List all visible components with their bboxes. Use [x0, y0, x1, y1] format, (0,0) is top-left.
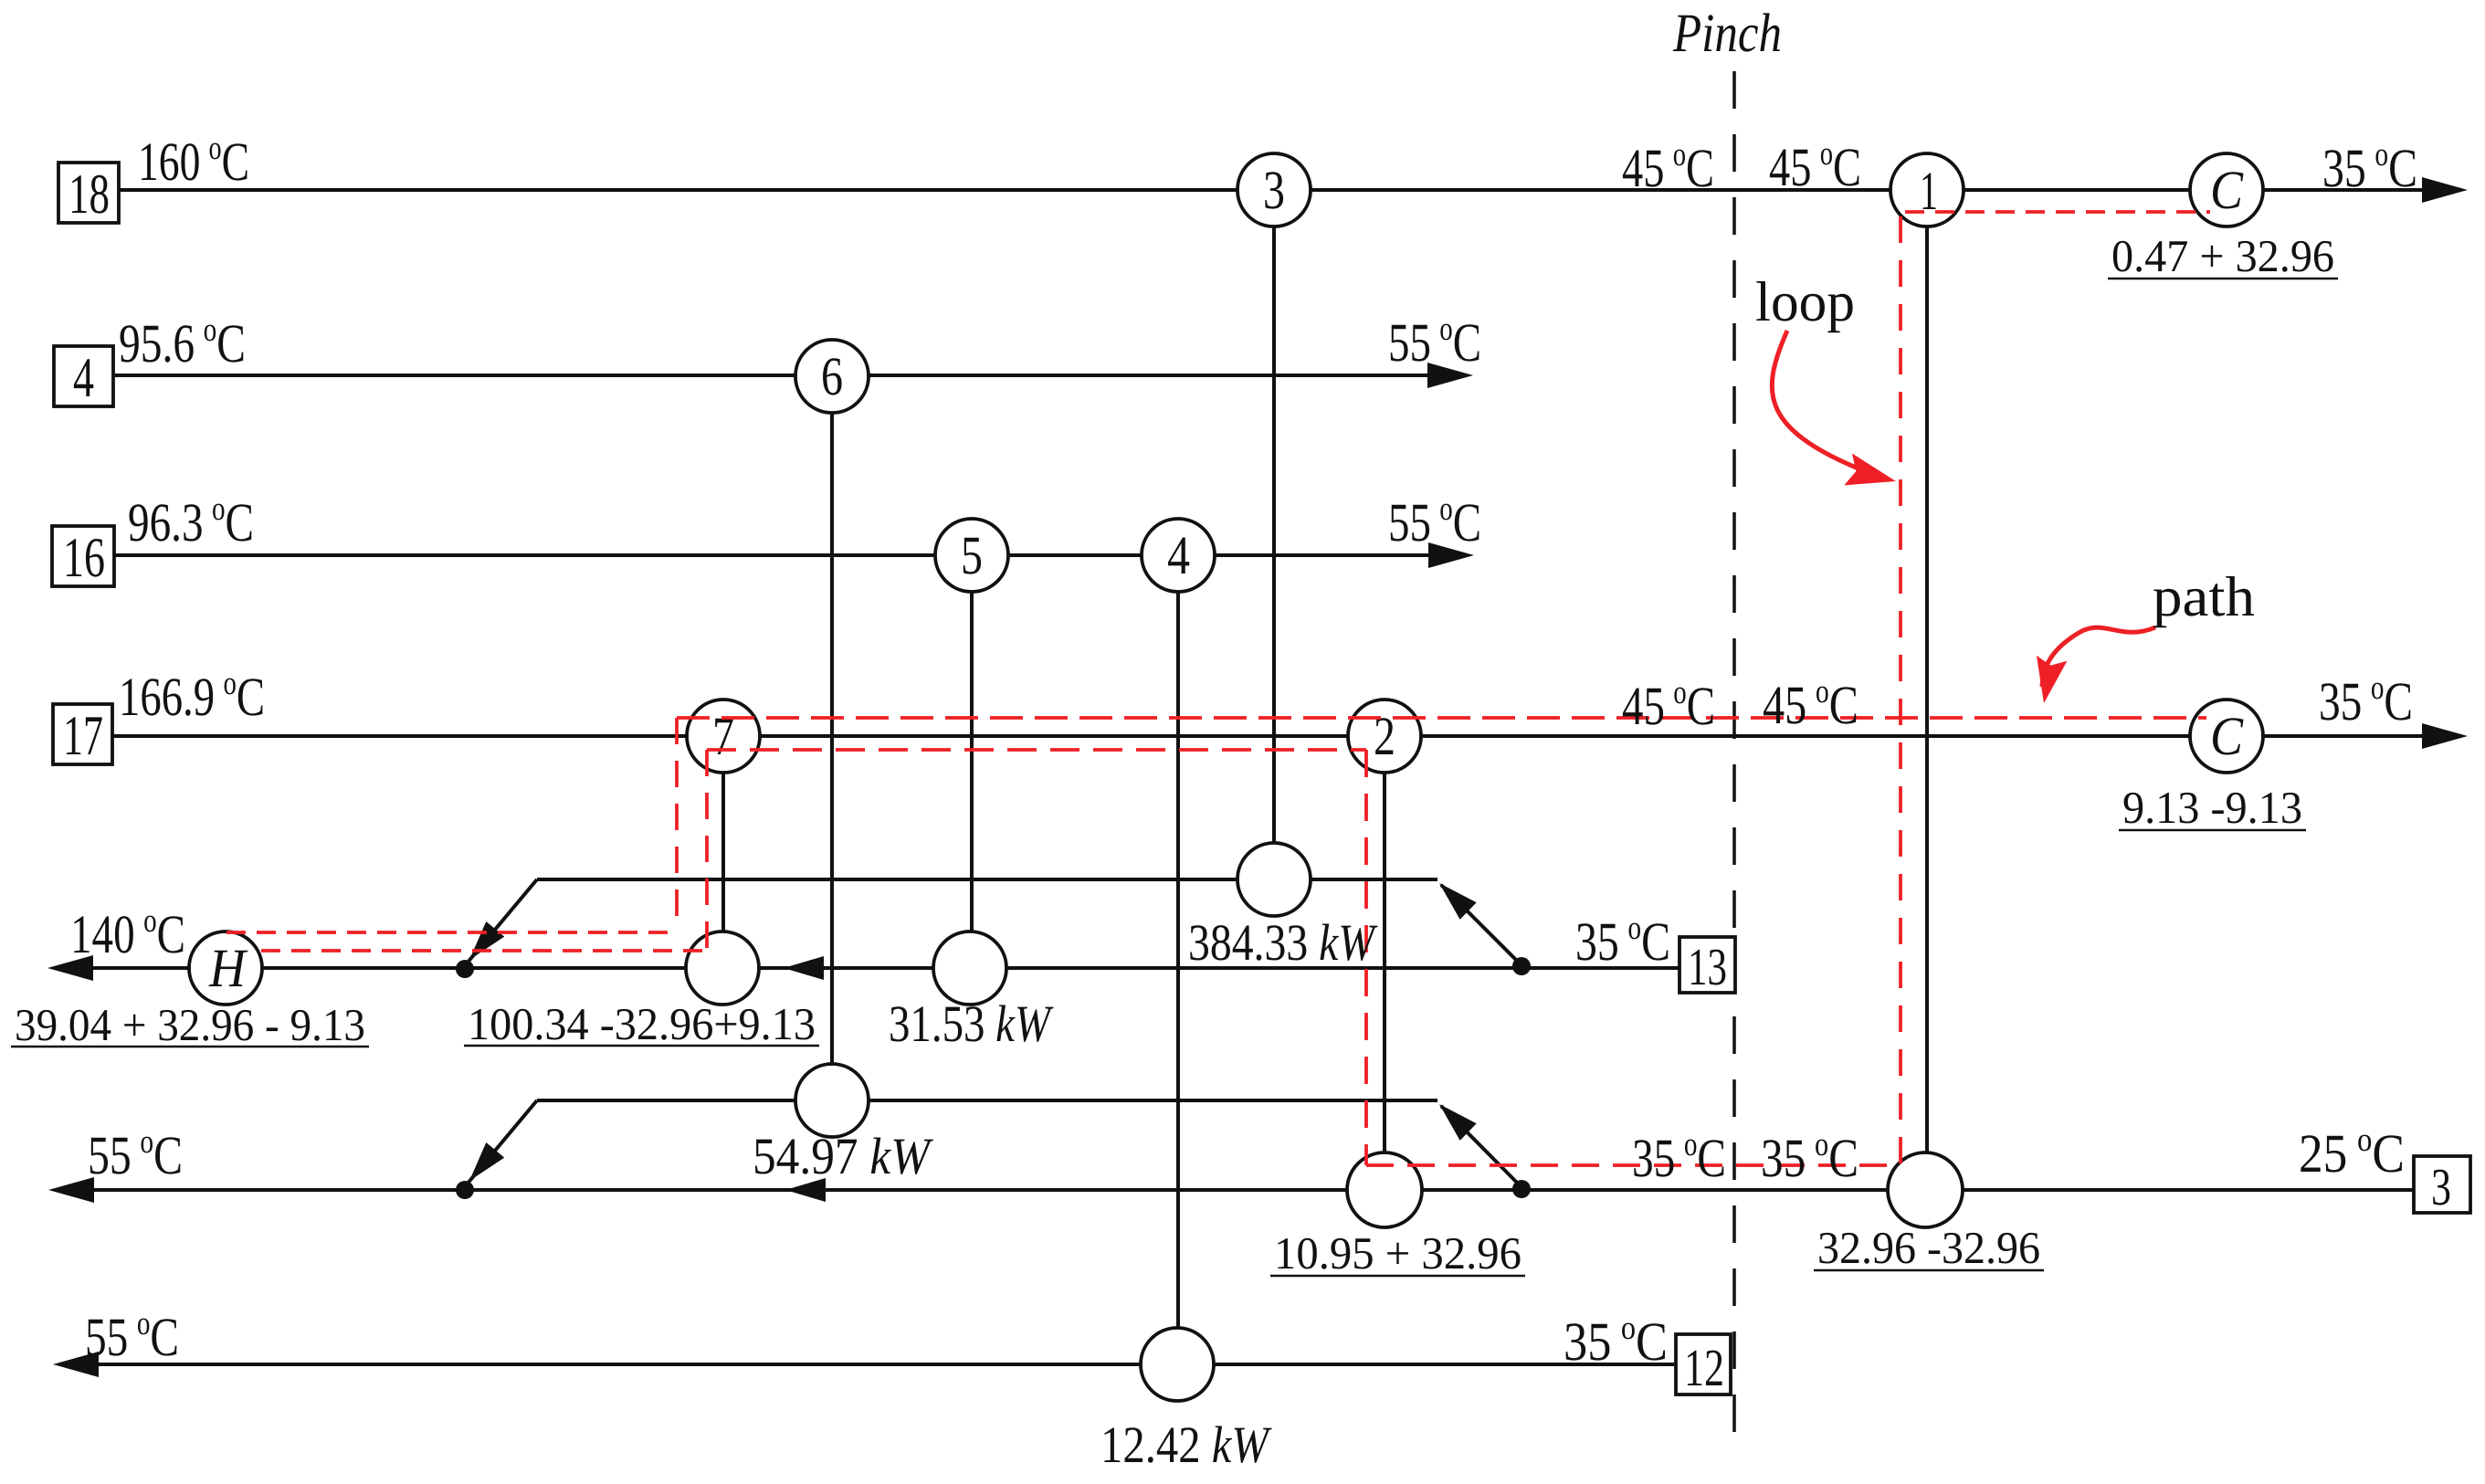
heat exchanger 6 shell 54.97 kW	[795, 1064, 869, 1137]
wire red path vertical at exchanger 2	[1364, 750, 1368, 1165]
cooler C on stream 18	[2190, 153, 2263, 226]
svg-text:3: 3	[2431, 1157, 2451, 1216]
heat exchanger 4 on stream 16	[1142, 519, 1215, 592]
svg-text:45 oC: 45 oC	[1622, 674, 1715, 736]
svg-text:4: 4	[1167, 525, 1190, 585]
heat exchanger 1 shell on stream 3	[1888, 1152, 1963, 1227]
heater H on stream 13	[189, 931, 262, 1005]
svg-text:95.6 oC: 95.6 oC	[119, 311, 246, 374]
wire red path horizontal below stream 17	[707, 748, 1366, 752]
arrow stream 16 outlet 55C	[1428, 542, 1474, 568]
svg-text:3: 3	[1263, 160, 1285, 220]
svg-text:4: 4	[73, 347, 94, 409]
wire stream 3 branch diagonal left	[467, 1100, 537, 1184]
svg-text:160 oC: 160 oC	[138, 130, 249, 192]
heat exchanger 6 on stream 4	[795, 340, 869, 413]
arrow red path annotation	[2042, 627, 2155, 687]
svg-text:100.34 -32.96+9.13: 100.34 -32.96+9.13	[468, 998, 816, 1049]
arrow stream 12 outlet 55C	[53, 1352, 99, 1377]
svg-text:9.13 -9.13: 9.13 -9.13	[2122, 782, 2302, 833]
wire match 1 vertical	[1925, 190, 1929, 1190]
svg-text:54.97 kW: 54.97 kW	[753, 1128, 933, 1185]
wire stream 16 hot line	[114, 553, 1431, 557]
wire red path lower horizontal to heater H	[261, 949, 707, 952]
heat exchanger 3 on stream 18	[1237, 153, 1311, 226]
node split junction stream 3 right	[1512, 1180, 1531, 1198]
wire stream 3 branch line	[537, 1099, 1437, 1102]
svg-text:7: 7	[712, 706, 734, 766]
heat exchanger 7 on stream 17	[687, 700, 760, 773]
arrow stream 13 outlet 140C	[47, 955, 93, 981]
svg-text:16: 16	[63, 527, 105, 589]
wire red loop top horizontal under cooler C stream 18	[1905, 210, 2210, 214]
svg-text:384.33 kW: 384.33 kW	[1188, 914, 1378, 972]
heat exchanger 2 shell on stream 3	[1347, 1152, 1422, 1227]
svg-text:45 oC: 45 oC	[1763, 673, 1858, 735]
wire match 7 vertical	[721, 736, 725, 968]
svg-text:35 oC: 35 oC	[2322, 136, 2417, 198]
svg-text:6: 6	[821, 346, 843, 406]
svg-text:55 oC: 55 oC	[1388, 490, 1481, 553]
wire red loop left vertical	[1899, 216, 1902, 1165]
svg-text:loop: loop	[1755, 271, 1855, 333]
svg-text:55 oC: 55 oC	[88, 1123, 183, 1185]
wire red path inner vertical at exchanger 7	[705, 750, 709, 951]
node merge junction stream 13 left	[456, 960, 474, 978]
svg-text:2: 2	[1374, 706, 1395, 766]
node stream box 3	[2414, 1156, 2470, 1213]
node stream box 18	[58, 163, 119, 223]
heat exchanger 5 on stream 16	[935, 519, 1008, 592]
svg-text:45 oC: 45 oC	[1622, 136, 1714, 198]
wire stream 3 cold line	[90, 1188, 2414, 1192]
pinch dashed line	[1732, 71, 1736, 1445]
svg-text:35 oC: 35 oC	[1575, 910, 1670, 972]
svg-text:55 oC: 55 oC	[85, 1305, 179, 1367]
wire stream 13 branch diagonal right	[1441, 885, 1522, 965]
svg-text:166.9 oC: 166.9 oC	[119, 665, 265, 727]
svg-text:31.53 kW: 31.53 kW	[889, 995, 1054, 1053]
svg-text:C: C	[2210, 706, 2244, 766]
svg-text:17: 17	[63, 705, 103, 767]
svg-text:140 oC: 140 oC	[70, 902, 185, 964]
node merge junction stream 3 left	[456, 1181, 474, 1199]
wire match 5 vertical	[970, 555, 974, 968]
svg-text:32.96 -32.96: 32.96 -32.96	[1817, 1222, 2040, 1273]
wire red path outer vertical at exchanger 7	[675, 718, 679, 932]
heat exchanger 3 shell 384.33 kW	[1237, 843, 1311, 916]
wire match 2 vertical	[1383, 736, 1386, 1190]
wire red path upper horizontal to heater H	[226, 931, 677, 934]
arrow stream 3 split to branch	[1431, 1096, 1477, 1141]
arrow stream 13 split to branch	[1431, 875, 1477, 920]
svg-text:Pinch: Pinch	[1672, 3, 1782, 63]
svg-text:path: path	[2153, 566, 2255, 628]
arrow stream 13 branch merge	[460, 921, 504, 967]
node stream box 4	[54, 346, 113, 406]
svg-text:39.04 + 32.96 - 9.13: 39.04 + 32.96 - 9.13	[15, 999, 365, 1050]
svg-text:18: 18	[68, 163, 110, 226]
wire stream 18 hot line	[119, 188, 2425, 192]
svg-text:45 oC: 45 oC	[1769, 135, 1861, 197]
node stream box 12	[1676, 1334, 1731, 1395]
heat exchanger 7 shell on stream 13	[686, 931, 759, 1005]
wire stream 13 branch diagonal left	[467, 879, 537, 963]
wire match 4 vertical	[1176, 555, 1180, 1364]
wire red loop bottom horizontal	[1366, 1163, 1889, 1167]
node split junction stream 13 right	[1512, 957, 1531, 975]
svg-text:13: 13	[1688, 937, 1727, 996]
arrow stream 13 mid flow	[784, 956, 824, 980]
svg-text:35 oC: 35 oC	[1632, 1126, 1726, 1188]
heat exchanger 4 shell 12.42 kW	[1141, 1328, 1214, 1401]
svg-text:5: 5	[961, 525, 983, 585]
svg-text:35 oC: 35 oC	[1564, 1310, 1668, 1372]
arrow stream 17 outlet 35C	[2422, 723, 2468, 749]
wire match 3 vertical	[1272, 190, 1276, 879]
wire stream 3 branch diagonal right	[1441, 1106, 1522, 1187]
svg-text:25 oC: 25 oC	[2299, 1121, 2405, 1184]
svg-text:12.42 kW: 12.42 kW	[1100, 1416, 1272, 1474]
arrow stream 18 outlet 35C	[2422, 177, 2468, 203]
wire red path top horizontal to cooler C stream 17	[677, 716, 2206, 720]
wire stream 12 cold line	[91, 1363, 1676, 1366]
wire match 6 vertical	[830, 376, 834, 1100]
wire stream 4 hot line	[113, 374, 1430, 377]
cooler C on stream 17	[2190, 700, 2263, 773]
heat exchanger 2 on stream 17	[1348, 700, 1421, 773]
node stream box 16	[52, 526, 114, 586]
heat exchanger 1 on stream 18	[1890, 153, 1964, 226]
svg-text:12: 12	[1684, 1338, 1724, 1397]
svg-text:C: C	[2210, 160, 2244, 220]
svg-text:35 oC: 35 oC	[1761, 1126, 1858, 1188]
wire stream 13 branch line	[537, 878, 1437, 881]
svg-text:H: H	[208, 938, 248, 998]
node stream box 17	[53, 704, 112, 764]
arrow stream 4 outlet 55C	[1427, 363, 1473, 388]
svg-text:96.3 oC: 96.3 oC	[128, 490, 254, 553]
node stream box 13	[1679, 937, 1735, 993]
wire stream 13 cold line	[90, 966, 1679, 970]
arrow stream 3 outlet 55C	[48, 1177, 94, 1203]
heat exchanger 5 shell 31.53 kW	[933, 931, 1006, 1005]
svg-text:0.47 + 32.96: 0.47 + 32.96	[2111, 230, 2334, 281]
arrow stream 3 mid flow	[785, 1178, 826, 1202]
svg-text:55 oC: 55 oC	[1388, 310, 1481, 373]
svg-text:10.95 + 32.96: 10.95 + 32.96	[1274, 1227, 1522, 1279]
wire stream 17 hot line	[112, 734, 2425, 738]
arrow stream 3 branch merge	[460, 1142, 504, 1188]
arrow red loop annotation	[1772, 331, 1874, 475]
svg-text:35 oC: 35 oC	[2319, 669, 2413, 731]
